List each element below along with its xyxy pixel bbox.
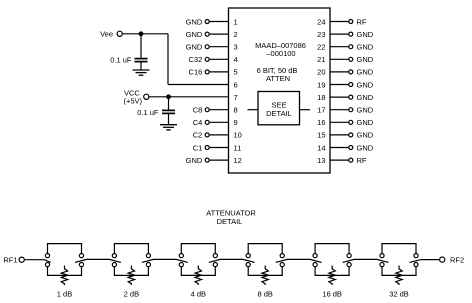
- svg-text:GND: GND: [186, 43, 203, 52]
- node : section 4 upper-right switch contact: [280, 254, 284, 258]
- node RF : pin 13 terminal circle: [349, 158, 353, 162]
- svg-text:16 dB: 16 dB: [322, 290, 342, 299]
- wire : pin 8 stub: [209, 109, 228, 111]
- wire : switch arm section 2 to section 3: [142, 259, 188, 262]
- node C2 : pin 10 terminal circle: [205, 133, 209, 137]
- node : section 4 lower-right switch contact: [280, 263, 284, 267]
- wire : section 2 pad (bottom) path: [114, 267, 148, 276]
- svg-text:1: 1: [234, 17, 238, 26]
- resistor : section 1 attenuator pad element (1 dB): [61, 266, 67, 286]
- node GND : pin 23 terminal circle: [349, 32, 353, 36]
- svg-text:11: 11: [234, 143, 242, 152]
- capacitor 0.1uF on Vee : plates: [135, 58, 148, 60]
- node : section 1 lower-right switch contact: [79, 263, 83, 267]
- node GND : pin 16 terminal circle: [349, 120, 353, 124]
- wire : section 2 bypass (top) path: [114, 244, 148, 254]
- node : section 3 lower-left switch contact: [179, 263, 183, 267]
- svg-text:GND: GND: [357, 106, 374, 115]
- svg-text:0.1 uF: 0.1 uF: [110, 56, 132, 65]
- node GND : pin 18 terminal circle: [349, 95, 353, 99]
- wire : junction down to capacitor: [168, 97, 170, 110]
- wire : dashed RF path out of SEE DETAIL (right): [300, 109, 311, 111]
- wire : pin 13 stub: [330, 159, 349, 161]
- wire : section 4 pad (bottom) path: [248, 267, 282, 276]
- svg-text:GND: GND: [357, 118, 374, 127]
- node GND : pin 3 terminal circle: [205, 45, 209, 49]
- node : section 6 lower-left switch contact: [380, 263, 384, 267]
- wire : pin 19 stub: [330, 84, 349, 86]
- wire : pin 1 stub: [209, 21, 228, 23]
- node : section 1 lower-left switch contact: [45, 263, 49, 267]
- wire : Vee net vertical drop to pin 6 row: [167, 34, 169, 85]
- svg-text:C1: C1: [193, 143, 203, 152]
- node VCC +5V : supply terminal: [144, 94, 149, 99]
- node C32 : pin 4 terminal circle: [205, 57, 209, 61]
- wire : pin 2 stub: [209, 33, 228, 35]
- node RF2 : output terminal: [440, 257, 445, 262]
- node : section 6 lower-right switch contact: [414, 263, 418, 267]
- wire : pin 20 stub: [330, 71, 349, 73]
- svg-text:C8: C8: [193, 106, 203, 115]
- node : section 6 upper-left switch contact: [380, 254, 384, 258]
- node : section 1 upper-left switch contact: [45, 254, 49, 258]
- node RF1 : input terminal: [19, 257, 24, 262]
- svg-text:DETAIL: DETAIL: [266, 109, 292, 118]
- wire : section 4 bypass (top) path: [248, 244, 282, 254]
- wire : pin 23 stub: [330, 33, 349, 35]
- svg-text:21: 21: [317, 55, 325, 64]
- svg-text:GND: GND: [357, 30, 374, 39]
- svg-text:GND: GND: [357, 131, 374, 140]
- svg-text:RF1: RF1: [3, 256, 17, 265]
- svg-text:GND: GND: [357, 80, 374, 89]
- resistor : section 6 attenuator pad element (32 dB): [396, 266, 402, 286]
- wire : pin 21 stub: [330, 58, 349, 60]
- node : section 5 lower-left switch contact: [313, 263, 317, 267]
- node GND : pin 1 terminal circle: [205, 20, 209, 24]
- svg-text:32 dB: 32 dB: [389, 290, 409, 299]
- node : section 3 upper-left switch contact: [179, 254, 183, 258]
- node : section 4 lower-left switch contact: [246, 263, 250, 267]
- svg-text:2 dB: 2 dB: [124, 290, 139, 299]
- node : section 2 lower-right switch contact: [146, 263, 150, 267]
- svg-text:GND: GND: [357, 68, 374, 77]
- node : section 5 upper-left switch contact: [313, 254, 317, 258]
- wire : capacitor to ground: [140, 62, 142, 70]
- resistor : section 2 attenuator pad element (2 dB): [128, 266, 134, 286]
- node GND : pin 20 terminal circle: [349, 70, 353, 74]
- svg-text:17: 17: [317, 106, 325, 115]
- node GND : pin 19 terminal circle: [349, 83, 353, 87]
- wire : pin 22 stub: [330, 46, 349, 48]
- node : SEE DETAIL box: [258, 92, 300, 125]
- node : section 5 lower-right switch contact: [347, 263, 351, 267]
- wire : pin 16 stub: [330, 121, 349, 123]
- svg-text:GND: GND: [186, 156, 203, 165]
- resistor : section 5 attenuator pad element (16 dB): [329, 266, 335, 286]
- svg-text:ATTEN: ATTEN: [266, 74, 290, 83]
- capacitor 0.1uF on VCC : plates: [162, 109, 175, 111]
- svg-text:15: 15: [317, 131, 325, 140]
- wire : section 3 bypass (top) path: [181, 244, 215, 254]
- wire : pin 11 stub: [209, 147, 228, 149]
- svg-text:GND: GND: [357, 43, 374, 52]
- node GND : pin 22 terminal circle: [349, 45, 353, 49]
- svg-text:22: 22: [317, 43, 325, 52]
- node : junction dot Vee/C bypass: [139, 32, 143, 36]
- wire : VCC net into pin 7: [149, 96, 229, 98]
- wire : pin 10 stub: [209, 134, 228, 136]
- svg-text:7: 7: [234, 93, 238, 102]
- svg-text:20: 20: [317, 68, 325, 77]
- wire : section 5 bypass (top) path: [315, 244, 349, 254]
- wire : section 3 pad (bottom) path: [181, 267, 215, 276]
- wire : switch arm section 4 to section 5: [276, 259, 322, 262]
- svg-text:C32: C32: [189, 55, 203, 64]
- wire : pin 14 stub: [330, 147, 349, 149]
- svg-text:1 dB: 1 dB: [57, 290, 72, 299]
- resistor : section 4 attenuator pad element (8 dB): [262, 266, 268, 286]
- svg-text:Vee: Vee: [100, 29, 113, 38]
- node GND : pin 15 terminal circle: [349, 133, 353, 137]
- op-amp U1 : attenuator IC MAAD-007086-000100 body: [229, 8, 331, 173]
- svg-text:RF: RF: [357, 156, 367, 165]
- wire : switch arm section 1 to section 2: [75, 259, 121, 262]
- svg-text:16: 16: [317, 118, 325, 127]
- svg-text:GND: GND: [357, 143, 374, 152]
- wire : junction down to capacitor: [140, 34, 142, 58]
- node : section 1 upper-right switch contact: [79, 254, 83, 258]
- wire : pin 18 stub: [330, 96, 349, 98]
- node Vee : supply terminal: [117, 31, 122, 36]
- node C1 : pin 11 terminal circle: [205, 146, 209, 150]
- node GND : pin 17 terminal circle: [349, 108, 353, 112]
- svg-text:GND: GND: [186, 17, 203, 26]
- wire : capacitor to ground: [168, 114, 170, 125]
- wire : switch arm section 3 to section 4: [209, 259, 255, 262]
- svg-text:2: 2: [234, 30, 238, 39]
- svg-text:4: 4: [234, 55, 238, 64]
- node C16 : pin 5 terminal circle: [205, 70, 209, 74]
- resistor : section 3 attenuator pad element (4 dB): [195, 266, 201, 286]
- svg-text:10: 10: [234, 131, 242, 140]
- svg-text:C16: C16: [189, 68, 203, 77]
- svg-text:14: 14: [317, 143, 325, 152]
- node GND : pin 12 terminal circle: [205, 158, 209, 162]
- svg-text:3: 3: [234, 43, 238, 52]
- svg-text:8: 8: [234, 106, 238, 115]
- node : section 3 upper-right switch contact: [213, 254, 217, 258]
- wire : section 1 bypass (top) path: [48, 244, 82, 254]
- wire : pin 17 stub: [330, 109, 349, 111]
- svg-text:GND: GND: [357, 55, 374, 64]
- node GND : pin 2 terminal circle: [205, 32, 209, 36]
- svg-text:C4: C4: [193, 118, 203, 127]
- wire : section 5 pad (bottom) path: [315, 267, 349, 276]
- node : section 3 lower-right switch contact: [213, 263, 217, 267]
- node : section 2 lower-left switch contact: [112, 263, 116, 267]
- svg-text:8 dB: 8 dB: [257, 290, 272, 299]
- wire : pin 15 stub: [330, 134, 349, 136]
- wire : RF1 lead into section 1 arm: [24, 260, 50, 263]
- wire : section 6 bypass (top) path: [382, 244, 416, 254]
- svg-text:9: 9: [234, 118, 238, 127]
- svg-text:RF2: RF2: [450, 255, 464, 264]
- node GND : pin 14 terminal circle: [349, 146, 353, 150]
- wire : section 6 pad (bottom) path: [382, 267, 416, 276]
- node RF : pin 24 terminal circle: [349, 20, 353, 24]
- svg-text:GND: GND: [186, 30, 203, 39]
- svg-text:(+5V): (+5V): [124, 96, 143, 105]
- svg-text:23: 23: [317, 30, 325, 39]
- svg-text:6: 6: [234, 80, 238, 89]
- svg-text:12: 12: [234, 156, 242, 165]
- node : section 5 upper-right switch contact: [347, 254, 351, 258]
- wire : pin 5 stub: [209, 71, 228, 73]
- svg-text:GND: GND: [357, 93, 374, 102]
- node : junction dot VCC/C bypass: [167, 95, 171, 99]
- svg-text:24: 24: [317, 17, 325, 26]
- wire : pin 3 stub: [209, 46, 228, 48]
- wire : section 1 pad (bottom) path: [48, 267, 82, 276]
- node C8 : pin 8 terminal circle: [205, 108, 209, 112]
- svg-text:5: 5: [234, 68, 238, 77]
- svg-text:4 dB: 4 dB: [191, 290, 206, 299]
- node : section 2 upper-left switch contact: [112, 254, 116, 258]
- ground : Vee bypass ground symbol: [133, 70, 150, 75]
- svg-text:–000100: –000100: [266, 49, 295, 58]
- wire : Vee net into pin 6: [168, 84, 229, 86]
- wire : pin 24 stub: [330, 21, 349, 23]
- wire : Vee net horizontal to terminal: [122, 33, 168, 35]
- svg-text:C2: C2: [193, 131, 203, 140]
- wire : pin 9 stub: [209, 121, 228, 123]
- wire : dashed RF path into SEE DETAIL (left): [248, 109, 259, 111]
- svg-text:0.1 uF: 0.1 uF: [137, 108, 159, 117]
- wire : switch arm section 5 to section 6: [343, 259, 389, 262]
- wire : pin 4 stub: [209, 58, 228, 60]
- node : section 4 upper-left switch contact: [246, 254, 250, 258]
- node C4 : pin 9 terminal circle: [205, 120, 209, 124]
- wire : section 6 arm out to RF2: [410, 260, 440, 263]
- node GND : pin 21 terminal circle: [349, 57, 353, 61]
- svg-text:RF: RF: [357, 17, 367, 26]
- ground : VCC bypass ground symbol: [160, 125, 177, 130]
- svg-text:18: 18: [317, 93, 325, 102]
- svg-text:13: 13: [317, 156, 325, 165]
- svg-text:DETAIL: DETAIL: [217, 217, 243, 226]
- svg-text:19: 19: [317, 80, 325, 89]
- node : section 2 upper-right switch contact: [146, 254, 150, 258]
- node : section 6 upper-right switch contact: [414, 254, 418, 258]
- wire : pin 12 stub: [209, 159, 228, 161]
